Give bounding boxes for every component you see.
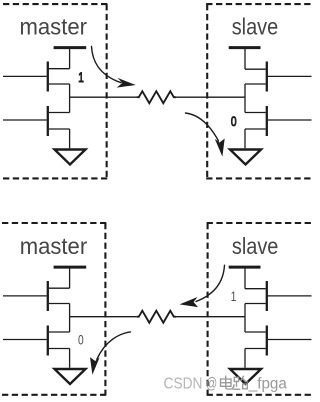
svg-text:_fpga: _fpga xyxy=(248,376,287,393)
wire: master output to resistor (bottom) xyxy=(70,316,137,318)
watermark hanzi: 路 xyxy=(233,376,248,390)
label "slave" (top) xyxy=(232,14,279,40)
svg-text:@: @ xyxy=(206,376,217,393)
svg-text:master: master xyxy=(20,14,88,40)
wire: VDD stem (slave top) xyxy=(244,48,246,70)
label "0" at master output (bottom) xyxy=(78,332,84,348)
power rail bar (master bottom) xyxy=(54,266,87,269)
arrow A: master drives high, current into resistor (top) xyxy=(92,47,136,88)
wire: resistor to slave (top) xyxy=(176,96,245,98)
watermark hanzi: 电 xyxy=(221,376,233,389)
label "master" (top) xyxy=(20,14,88,40)
label "1" at slave (bottom) xyxy=(231,288,237,304)
master box (top, dashed) xyxy=(3,4,108,178)
wire: ground stem (master bottom) xyxy=(69,349,71,368)
wire: gate of M3 (slave top) xyxy=(268,75,312,77)
wire: gate of M1 (master top) xyxy=(3,75,47,77)
label "slave" (bottom) xyxy=(232,233,279,259)
arrow C: current sinks into master pull-down (bottom) xyxy=(90,332,131,375)
label "master" (bottom) xyxy=(20,233,88,259)
ground symbol (master top) xyxy=(55,150,86,165)
svg-text:master: master xyxy=(20,233,88,259)
resistor R (top) xyxy=(137,91,176,103)
ground symbol (slave bottom) xyxy=(230,369,261,384)
transistor M8 pull-down (slave bottom) xyxy=(245,326,267,356)
svg-text:slave: slave xyxy=(232,14,279,40)
wire: gate of M2 (master top) xyxy=(3,119,47,121)
transistor M1 pull-up (master top) xyxy=(48,62,70,92)
slave box (bottom, dashed) xyxy=(207,223,313,395)
wire: gate of M4 (slave top) xyxy=(268,119,312,121)
master box (bottom, dashed) xyxy=(2,223,106,395)
svg-text:CSDN: CSDN xyxy=(164,376,203,393)
wire: ground stem (slave bottom) xyxy=(244,349,246,368)
wire: gate of M6 (master bottom) xyxy=(3,339,47,341)
wire: VDD stem (master top) xyxy=(69,48,71,69)
wire: gate of M8 (slave bottom) xyxy=(268,339,312,341)
wire: output node vertical (master top) xyxy=(69,84,71,113)
watermark: @ xyxy=(206,376,217,393)
ground symbol (slave top) xyxy=(230,150,261,165)
transistor M4 pull-down (slave top) xyxy=(245,106,267,136)
power rail bar (slave top) xyxy=(229,46,261,49)
label "1" at master output (top) xyxy=(78,69,84,85)
transistor M6 pull-down (master bottom) xyxy=(48,326,70,356)
wire: master output to resistor (top) xyxy=(70,96,137,98)
ground symbol (master bottom) xyxy=(55,369,86,384)
wire: VDD stem (master bottom) xyxy=(69,267,71,288)
wire: gate of M5 (master bottom) xyxy=(3,295,47,297)
slave box (top, dashed) xyxy=(206,4,313,178)
wire: ground stem (master top) xyxy=(69,129,71,148)
power rail bar (slave bottom) xyxy=(229,266,261,269)
transistor M5 pull-up (master bottom) xyxy=(48,281,70,311)
svg-text:1: 1 xyxy=(231,288,237,304)
arrow D: slave drives high, current into resistor (bottom) xyxy=(180,265,225,307)
arrow B: current sinks into slave pull-down (top) xyxy=(186,113,225,157)
wire: output node vertical (slave top) xyxy=(244,84,246,113)
transistor M2 pull-down (master top) xyxy=(48,106,70,136)
label "0" at slave (top) xyxy=(231,113,237,129)
wire: output node vertical (slave bottom) xyxy=(244,304,246,333)
wire: VDD stem (slave bottom) xyxy=(244,267,246,289)
svg-text:1: 1 xyxy=(78,69,84,85)
svg-text:slave: slave xyxy=(232,233,279,259)
resistor R (bottom) xyxy=(137,311,176,323)
watermark: _fpga xyxy=(248,376,287,393)
svg-text:0: 0 xyxy=(231,113,237,129)
wire: gate of M7 (slave bottom) xyxy=(268,295,312,297)
wire: output node vertical (master bottom) xyxy=(69,304,71,333)
svg-text:0: 0 xyxy=(78,332,84,348)
wire: resistor to slave (bottom) xyxy=(176,316,245,318)
watermark: CSDN xyxy=(164,376,203,393)
power rail bar (master top) xyxy=(54,46,87,49)
transistor M3 pull-up (slave top) xyxy=(245,62,267,92)
transistor M7 pull-up (slave bottom) xyxy=(245,281,267,311)
wire: ground stem (slave top) xyxy=(244,129,246,148)
